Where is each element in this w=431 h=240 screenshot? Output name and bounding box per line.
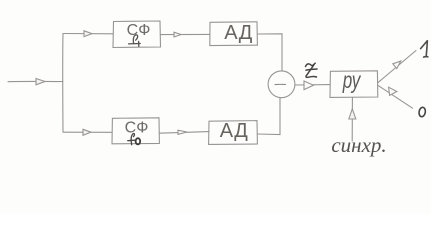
svg-text:синхр.: синхр. xyxy=(331,133,386,157)
wire to top filter xyxy=(63,33,113,35)
arrowhead bottom branch xyxy=(83,129,91,135)
arrowhead input xyxy=(36,79,45,85)
wire splitter vertical xyxy=(62,34,64,133)
arrowhead СФ0-АД0 xyxy=(178,130,187,134)
wire АД0 to subtractor xyxy=(257,98,280,135)
arrowhead output0 xyxy=(389,87,397,95)
wire subtractor to РУ xyxy=(295,84,330,86)
wire sync xyxy=(351,97,353,141)
wire СФ1 to АД1 xyxy=(161,33,211,35)
box РУ xyxy=(330,71,378,98)
label f1 xyxy=(129,35,141,47)
wire to bottom filter xyxy=(63,131,112,133)
label Z xyxy=(306,63,318,77)
minus sign xyxy=(275,83,286,85)
arrowhead top branch xyxy=(84,31,92,37)
svg-text:СФ: СФ xyxy=(127,22,151,39)
label f0 xyxy=(128,133,140,144)
svg-text:СФ: СФ xyxy=(125,120,149,137)
box СФ1 xyxy=(113,21,161,48)
arrowhead sync xyxy=(349,109,356,119)
arrowhead output1 xyxy=(393,61,401,69)
wire СФ0 to АД0 xyxy=(159,132,209,134)
wire output 1 xyxy=(378,51,416,83)
label 0 xyxy=(418,107,426,117)
arrowhead Z xyxy=(304,81,314,90)
label РУ xyxy=(342,67,362,93)
label 1 xyxy=(421,41,428,57)
subtractor circle xyxy=(268,71,295,98)
wire АД1 to subtractor xyxy=(257,34,282,71)
svg-text:ру: ру xyxy=(342,67,362,93)
box АД1 xyxy=(210,22,258,46)
arrowhead СФ1-АД1 xyxy=(174,32,181,37)
box СФ0 xyxy=(112,118,159,144)
svg-text:АД: АД xyxy=(224,22,253,44)
box АД0 xyxy=(209,121,258,145)
wire input horizontal xyxy=(8,80,63,82)
wire output 0 xyxy=(378,85,413,108)
svg-text:АД: АД xyxy=(220,120,249,142)
